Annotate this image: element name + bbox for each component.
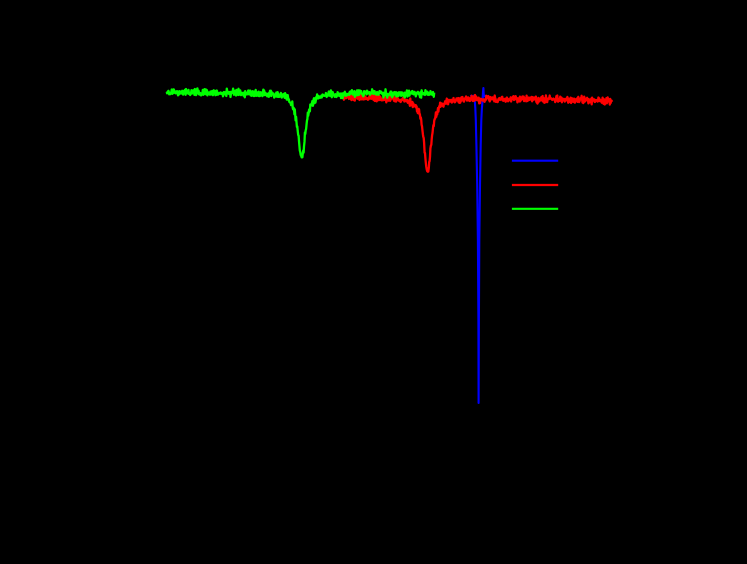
green trace: noisy baseline with absorption dip (167, 88, 435, 157)
legend sample line: blue (512, 160, 558, 162)
legend sample line: green (512, 208, 558, 210)
red trace: noisy baseline with absorption dip (344, 94, 613, 172)
blue trace: narrow deep absorption dip (470, 88, 487, 403)
legend sample line: red (512, 184, 558, 186)
